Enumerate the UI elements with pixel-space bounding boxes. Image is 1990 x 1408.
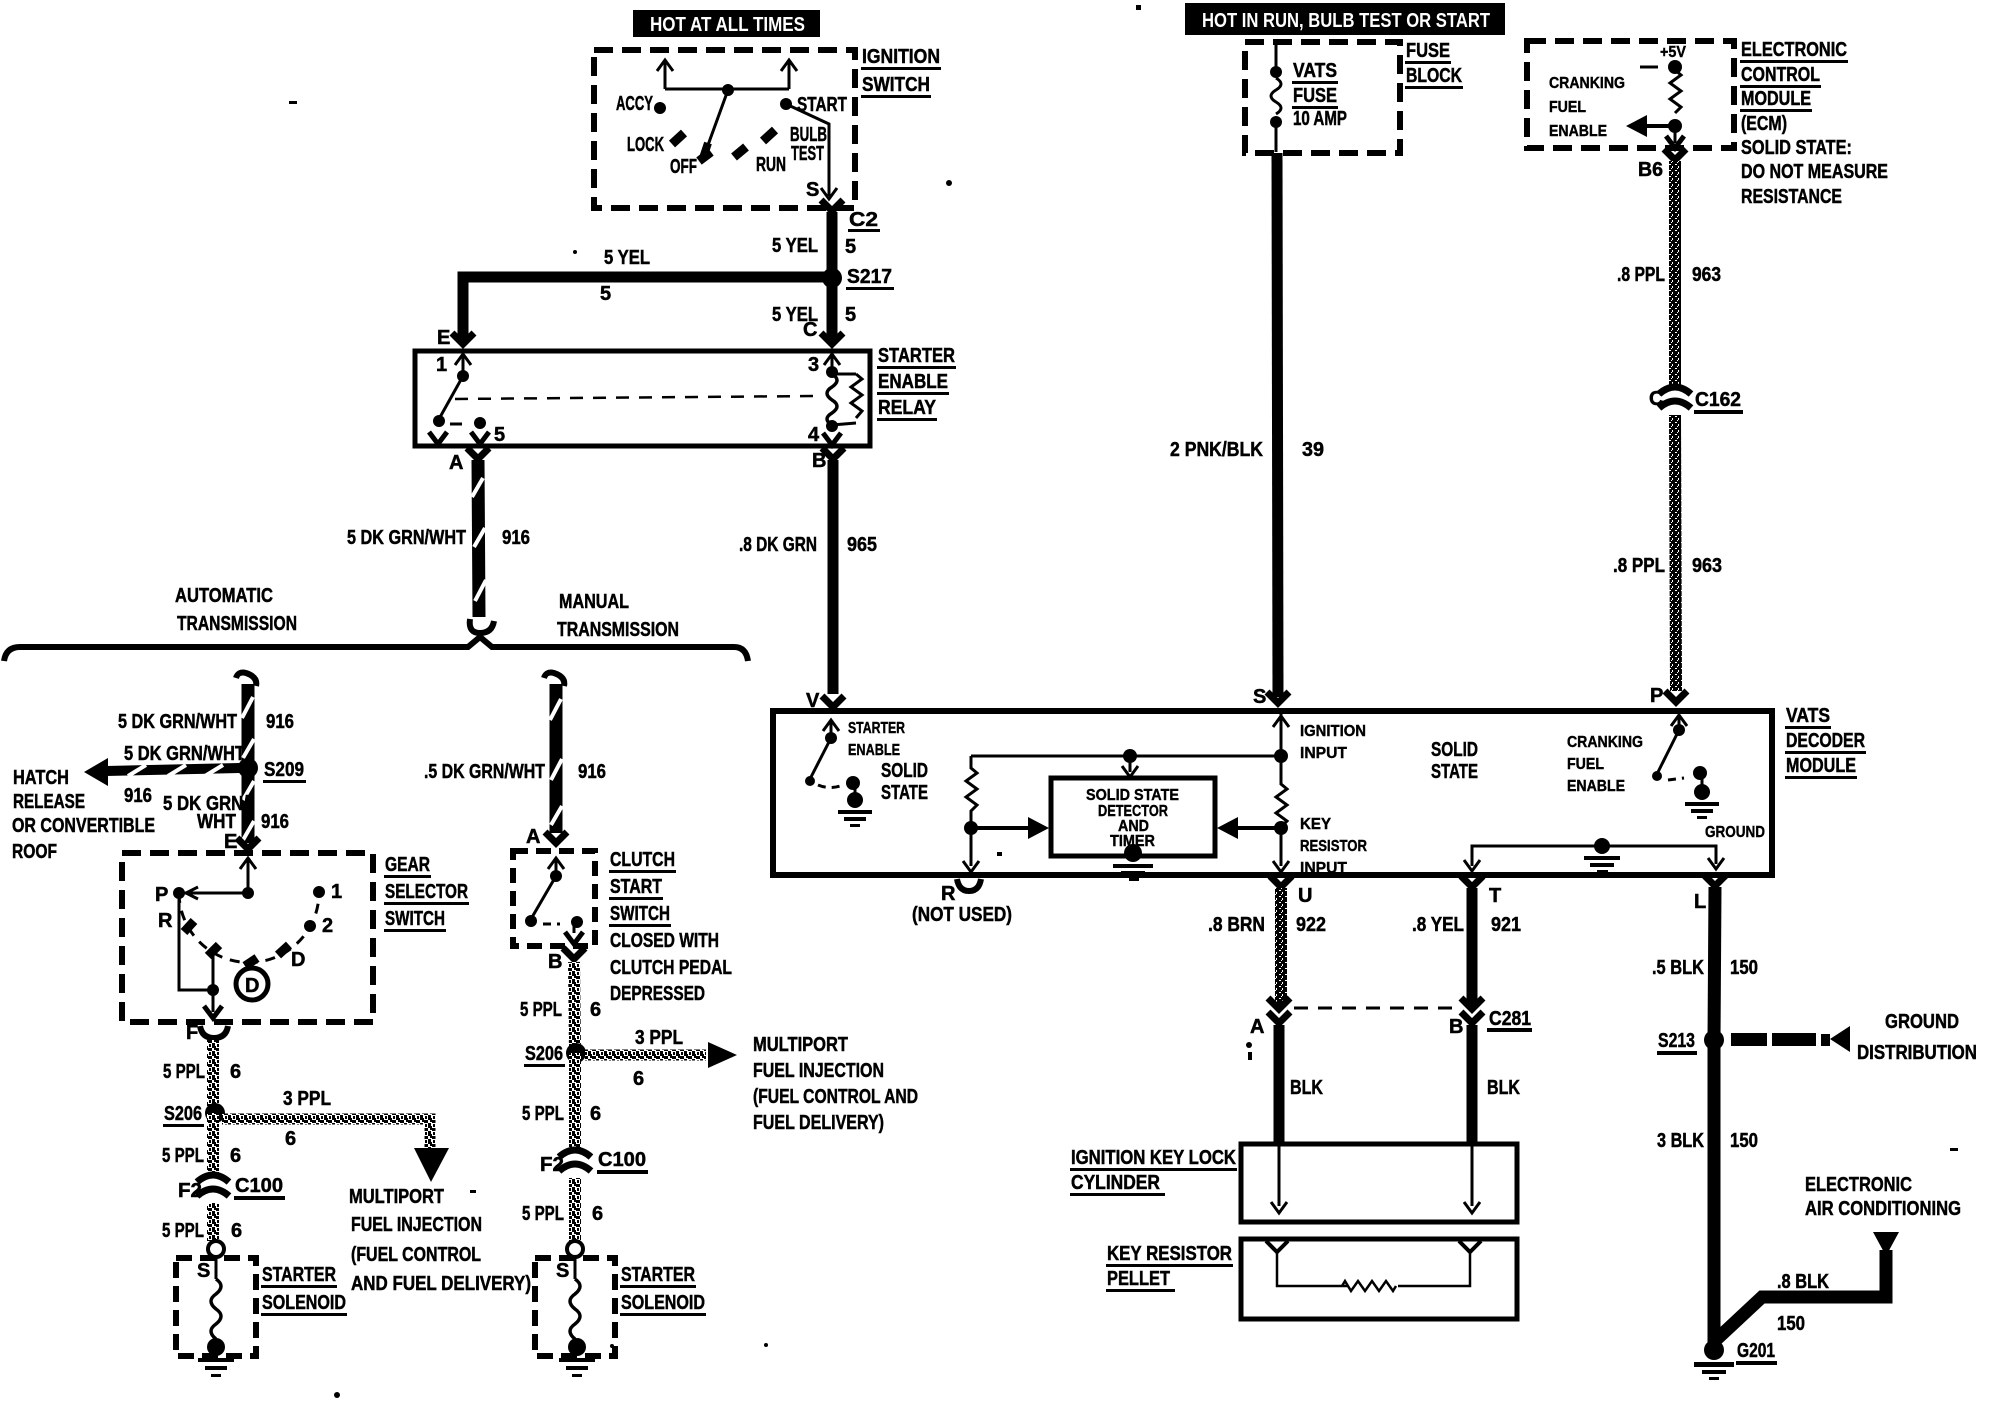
wire ignition feed right arrow [781,60,797,89]
svg-text:921: 921 [1491,914,1521,936]
label 916 [578,761,606,783]
svg-text:916: 916 [578,761,606,783]
label 5 PPL [162,1145,204,1167]
contact BULB TEST [763,130,775,141]
wire N contact to output [212,951,215,990]
label 6 [590,1103,601,1125]
wire .8 PPL lower [1675,415,1676,691]
label SOLID STATE DETECTOR AND TIMER [1086,787,1179,850]
label 5 PPL [162,1220,204,1242]
label S [197,1260,210,1282]
svg-text:ROOF: ROOF [12,841,57,863]
label R (NOT USED) [912,883,1012,926]
label 6 [592,1203,603,1225]
splice S213 [1657,1030,1724,1055]
wire BLK right [1467,1025,1478,1144]
terminal R hook [957,879,981,891]
svg-text:CONTROL: CONTROL [1741,64,1820,86]
node ignition input [1274,749,1288,763]
svg-text:6: 6 [590,1103,601,1125]
svg-text:R: R [158,910,173,932]
label 965 [847,534,877,556]
contact 2 [304,915,333,937]
svg-text:916: 916 [124,785,152,807]
svg-text:MODULE: MODULE [1741,88,1811,110]
clutch start switch box [513,851,595,946]
svg-text:C: C [1649,388,1663,410]
label 5 YEL [772,304,818,326]
svg-text:RELEASE: RELEASE [13,791,85,813]
label 3 PPL [283,1088,331,1110]
svg-text:CLUTCH PEDAL: CLUTCH PEDAL [610,957,732,979]
svg-text:FUEL: FUEL [1549,99,1586,116]
svg-text:ENABLE: ENABLE [1567,778,1625,795]
ground G201 [1694,1340,1734,1380]
pin 5 [471,417,505,446]
svg-text:6: 6 [231,1220,242,1242]
contact P [155,884,185,906]
svg-text:5 PPL: 5 PPL [522,1203,564,1225]
relay coil resistor [832,374,862,425]
wire junction to F [204,990,222,1018]
svg-text:L: L [1694,891,1706,913]
wire 5 YEL horizontal to relay E [463,277,832,341]
svg-text:START: START [610,876,662,898]
svg-text:5 PPL: 5 PPL [163,1061,205,1083]
svg-text:BLK: BLK [1487,1077,1520,1099]
arrow detector feed [1122,756,1138,777]
connector L [1694,875,1726,913]
ground bus symbol [1584,838,1620,873]
connector B [812,448,844,472]
connector C162 [1649,387,1743,414]
svg-text:HATCH: HATCH [13,767,69,789]
svg-text:ENABLE: ENABLE [878,371,948,393]
svg-text:S209: S209 [264,759,304,781]
label CLUTCH START SWITCH [609,849,732,1005]
svg-text:5 PPL: 5 PPL [162,1145,204,1167]
node detector feed [1123,749,1137,763]
svg-text:C281: C281 [1489,1008,1531,1030]
label KEY RESISTOR PELLET [1106,1243,1233,1292]
cranking fuel enable switch vats [1652,715,1707,781]
connector E [452,333,474,344]
label +5V [1660,44,1686,61]
svg-text:D: D [245,975,259,997]
svg-text:CRANKING: CRANKING [1567,734,1643,751]
svg-text:10 AMP: 10 AMP [1293,108,1347,130]
starter solenoid box manual [535,1258,615,1356]
wire P to output [179,899,213,990]
svg-text:963: 963 [1692,555,1722,577]
svg-text:.8 BRN: .8 BRN [1208,914,1265,936]
ECM box [1527,41,1734,148]
svg-text:3 BLK: 3 BLK [1657,1130,1704,1152]
transmission split brace [4,637,748,661]
svg-text:5 DK GRN/WHT: 5 DK GRN/WHT [124,743,245,765]
label E [437,327,450,349]
key pellet contacts and resistor [1266,1241,1481,1291]
contact N [208,945,219,956]
svg-text:CLUTCH: CLUTCH [610,849,675,871]
svg-text:STARTER: STARTER [262,1264,336,1286]
switch wiper to OFF [703,90,728,158]
VATS decoder module box [773,711,1772,875]
node R branch [964,821,978,835]
arrow to detector left [971,817,1049,839]
label 150 [1777,1313,1805,1335]
label IGNITION INPUT [1300,723,1366,762]
svg-text:.8 PPL: .8 PPL [1613,555,1665,577]
svg-text:SOLID STATE: SOLID STATE [1086,787,1179,804]
svg-text:C: C [803,319,817,341]
svg-text:FUEL DELIVERY): FUEL DELIVERY) [753,1112,884,1134]
svg-text:MODULE: MODULE [1786,755,1856,777]
pin 3 [808,354,840,378]
contact D low [245,958,257,966]
splice S209 [238,758,306,783]
label .8 BLK [1777,1271,1829,1293]
svg-text:INPUT: INPUT [1300,745,1347,762]
label BLK right [1487,1077,1520,1099]
svg-text:MULTIPORT: MULTIPORT [753,1034,848,1056]
svg-text:.8 PPL: .8 PPL [1617,264,1665,286]
connector A [449,448,489,474]
label LOCK [627,134,664,156]
label 916 hatch [124,785,152,807]
svg-text:OFF: OFF [670,156,697,178]
svg-text:6: 6 [285,1128,296,1150]
svg-text:DECODER: DECODER [1786,730,1865,752]
wire ground distribution dashed [1731,1026,1850,1052]
splice S206 manual [524,1043,586,1067]
svg-text:CLOSED WITH: CLOSED WITH [610,930,719,952]
svg-text:IGNITION KEY LOCK: IGNITION KEY LOCK [1071,1147,1236,1169]
svg-text:S213: S213 [1658,1030,1695,1052]
svg-text:DEPRESSED: DEPRESSED [610,983,705,1005]
label E gear selector [224,831,237,853]
svg-text:MANUAL: MANUAL [559,591,629,613]
label 5 YEL [604,247,650,269]
svg-text:5 PPL: 5 PPL [520,999,562,1021]
connector C [821,333,843,344]
svg-text:T: T [1489,885,1501,907]
label G201 [1736,1340,1777,1365]
svg-text:(NOT USED): (NOT USED) [912,904,1012,926]
label 916 below S209 [261,811,289,833]
label 6 [230,1061,241,1083]
label C [803,319,817,341]
label P vats input [1650,685,1663,707]
svg-text:E: E [224,831,237,853]
svg-text:6: 6 [592,1203,603,1225]
connector S vats [1267,692,1289,703]
wire 5 PPL manual upper [574,962,575,1053]
dashed link c281 [1294,1007,1458,1010]
wire ignition feed left arrow [657,60,673,89]
svg-text:S: S [556,1260,569,1282]
svg-text:SWITCH: SWITCH [610,903,670,925]
svg-text:150: 150 [1777,1313,1805,1335]
svg-text:CRANKING: CRANKING [1549,75,1625,92]
svg-text:U: U [1298,885,1312,907]
svg-text:GEAR: GEAR [385,854,430,876]
svg-text:4: 4 [808,424,820,446]
wire hatch release striped [84,758,240,786]
label 5 DK GRN/WHT [347,527,466,549]
arrow to detector right [1217,817,1281,839]
svg-text:5 PPL: 5 PPL [522,1103,564,1125]
solenoid coil manual [570,1257,580,1339]
label GROUND [1705,824,1765,841]
wire .5 BLK to S213 [1714,887,1715,1040]
svg-text:PELLET: PELLET [1107,1268,1170,1290]
label HOT AT ALL TIMES [633,10,820,37]
svg-text:B: B [1449,1016,1463,1038]
svg-text:C100: C100 [598,1149,646,1171]
wire .8 BRN [1275,888,1287,1005]
svg-text:SOLID: SOLID [881,760,928,782]
svg-text:B: B [548,951,562,973]
label S [556,1260,569,1282]
svg-text:FUEL: FUEL [1567,756,1604,773]
svg-text:6: 6 [230,1145,241,1167]
gear selector feed arrow [240,858,256,893]
label ELECTRONIC AIR CONDITIONING [1805,1174,1961,1220]
svg-text:C2: C2 [849,209,878,231]
circled D indicator [236,968,268,1000]
svg-text:C162: C162 [1695,389,1741,411]
svg-text:A: A [1250,1016,1264,1038]
svg-text:STARTER: STARTER [878,345,955,367]
label STARTER SOLENOID auto [261,1264,347,1316]
svg-text:(FUEL CONTROL AND: (FUEL CONTROL AND [753,1086,918,1108]
label S vats input [1253,686,1266,708]
svg-text:6: 6 [230,1061,241,1083]
relay switch blade [433,376,463,427]
label STARTER SOLENOID manual [620,1264,706,1316]
svg-text:S206: S206 [525,1043,563,1065]
svg-text:KEY RESISTOR: KEY RESISTOR [1107,1243,1232,1265]
contact 1 [313,881,342,903]
terminal ring auto solenoid [208,1241,224,1257]
pin 4 [808,420,841,446]
wire .5 DK GRN/WHT striped [550,684,562,833]
solid state detector and timer box [1051,778,1215,856]
svg-text:AIR CONDITIONING: AIR CONDITIONING [1805,1198,1961,1220]
node key resistor input [1274,821,1288,835]
svg-text:STATE: STATE [881,782,928,804]
svg-text:2 PNK/BLK: 2 PNK/BLK [1170,439,1263,461]
svg-text:BLK: BLK [1290,1077,1323,1099]
label MULTIPORT FUEL INJECTION manual [753,1034,918,1134]
svg-text:GROUND: GROUND [1885,1011,1959,1033]
wire .8 YEL [1467,888,1478,1005]
label 150 [1730,957,1758,979]
svg-text:KEY: KEY [1300,816,1331,833]
svg-text:S: S [197,1260,210,1282]
ground cranking fuel enable [1685,776,1719,819]
svg-text:SOLENOID: SOLENOID [262,1292,346,1314]
wire .8 BLK to electronic air conditioning [1717,1232,1899,1339]
svg-text:(ECM): (ECM) [1741,113,1787,135]
svg-text:39: 39 [1302,439,1324,461]
node gear output junction [207,984,219,996]
svg-text:916: 916 [502,527,530,549]
svg-text:5 PPL: 5 PPL [162,1220,204,1242]
ground manual solenoid [559,1338,595,1377]
fuse block box [1245,42,1400,153]
contact START [780,98,792,110]
wire 5 YEL to relay C [827,278,838,340]
svg-text:965: 965 [847,534,877,556]
node gear selector common [242,887,254,899]
splice S206 auto [163,1103,225,1127]
svg-text:150: 150 [1730,1130,1758,1152]
label HOT IN RUN, BULB TEST OR START [1185,3,1505,35]
label CRANKING FUEL ENABLE vats [1567,734,1643,795]
label V vats input [806,690,820,712]
svg-text:FUSE: FUSE [1293,85,1337,107]
wire common to P [179,887,248,899]
svg-text:.5 DK GRN/WHT: .5 DK GRN/WHT [424,761,545,783]
relay switch throw dash [450,423,462,426]
wire 5 DK GRN/WHT striped to S209 [242,684,254,843]
svg-text:5 YEL: 5 YEL [604,247,650,269]
svg-text:STARTER: STARTER [621,1264,695,1286]
svg-text:5: 5 [845,304,856,326]
svg-text:R: R [941,883,956,905]
label 2 PNK/BLK [1170,439,1263,461]
contact LOCK [672,133,684,144]
ground starter enable [838,786,872,827]
VATS fuse element [1270,44,1282,152]
label .8 PPL [1613,555,1665,577]
key resistor pellet box [1241,1239,1517,1319]
label 963 [1692,264,1721,286]
label 916 [502,527,530,549]
connector F [186,1022,228,1044]
connector U [1270,876,1312,907]
wire hook automatic branch [236,673,256,686]
svg-text:5 YEL: 5 YEL [772,235,818,257]
ground bus wire [1464,846,1724,871]
svg-text:S: S [806,179,819,201]
label GEAR SELECTOR SWITCH [384,854,469,932]
svg-text:ELECTRONIC: ELECTRONIC [1741,39,1847,61]
svg-text:VATS: VATS [1293,60,1337,82]
svg-text:963: 963 [1692,264,1721,286]
label MANUAL TRANSMISSION [557,591,679,641]
starter solenoid box auto [176,1258,256,1356]
svg-text:CYLINDER: CYLINDER [1071,1172,1160,1194]
relay internal dashed line [455,396,815,399]
svg-text:1: 1 [331,881,342,903]
svg-text:P: P [1650,685,1663,707]
svg-text:MULTIPORT: MULTIPORT [349,1186,444,1208]
label ELECTRONIC CONTROL MODULE (ECM) SOLID STATE: DO NOT MEASURE RESISTANCE [1740,39,1888,208]
label .8 BRN [1208,914,1265,936]
label 6 [230,1145,241,1167]
svg-text:5: 5 [494,424,505,446]
wire 3 PPL manual to multiport [585,1042,737,1068]
label 5 PPL [522,1103,564,1125]
svg-text:6: 6 [590,999,601,1021]
label RUN [756,154,786,176]
svg-text:S217: S217 [847,266,892,288]
svg-text:5 DK GRN/WHT: 5 DK GRN/WHT [347,527,466,549]
svg-text:916: 916 [261,811,289,833]
label 916 [266,711,294,733]
svg-text:ACCY: ACCY [616,93,653,115]
svg-text:A: A [449,452,463,474]
svg-text:ENABLE: ENABLE [1549,123,1607,140]
connector V vats [822,696,844,707]
pin 1 [436,354,471,382]
svg-text:916: 916 [266,711,294,733]
svg-text:ENABLE: ENABLE [848,742,900,759]
connector C100 manual F2 [540,1149,648,1176]
svg-text:WHT: WHT [197,811,236,833]
svg-text:S: S [1253,686,1266,708]
svg-text:GROUND: GROUND [1705,824,1765,841]
label SOLID STATE center [1431,739,1478,783]
clutch switch throw [543,916,583,944]
label 6 [285,1128,296,1150]
svg-text:DISTRIBUTION: DISTRIBUTION [1857,1042,1977,1064]
label .8 YEL [1412,914,1464,936]
label A clutch [526,826,540,848]
wire 5 PPL manual mid [569,1053,581,1150]
ignition key lock cylinder box [1241,1144,1517,1222]
svg-text:A: A [526,826,540,848]
gear selector switch box [122,853,373,1022]
wire 5 PPL auto mid [207,1113,219,1176]
label .5 DK GRN/WHT [424,761,545,783]
label 921 [1491,914,1521,936]
svg-text:SOLENOID: SOLENOID [621,1292,705,1314]
splice S217 [822,266,894,290]
label BLK left [1290,1077,1323,1099]
svg-text:3: 3 [808,354,819,376]
contact R [158,910,194,932]
label 5 PPL [522,1203,564,1225]
ground detector [1113,844,1153,881]
wire 2 PNK/BLK [1277,153,1278,697]
svg-text:SELECTOR: SELECTOR [385,881,468,903]
label S [806,179,819,201]
svg-text:RESISTOR: RESISTOR [1300,838,1367,855]
svg-text:S206: S206 [164,1103,202,1125]
svg-text:F2: F2 [178,1180,202,1202]
label 3 PPL [635,1027,683,1049]
svg-text:AUTOMATIC: AUTOMATIC [175,585,273,607]
svg-text:HOT AT ALL TIMES: HOT AT ALL TIMES [650,14,805,36]
svg-text:STARTER: STARTER [848,720,905,737]
svg-text:5: 5 [845,236,856,258]
label 963 [1692,555,1722,577]
svg-text:IGNITION: IGNITION [1300,723,1366,740]
ignition input arrow [1273,714,1289,756]
ground auto solenoid [198,1338,234,1377]
wire 5 PPL auto upper [207,1040,219,1113]
svg-text:VATS: VATS [1786,705,1830,727]
svg-text:F: F [186,1022,198,1044]
svg-text:.8 DK GRN: .8 DK GRN [739,534,817,556]
connector E gear selector [237,838,259,849]
arrow R down [963,828,979,872]
svg-text:TRANSMISSION: TRANSMISSION [177,613,297,635]
